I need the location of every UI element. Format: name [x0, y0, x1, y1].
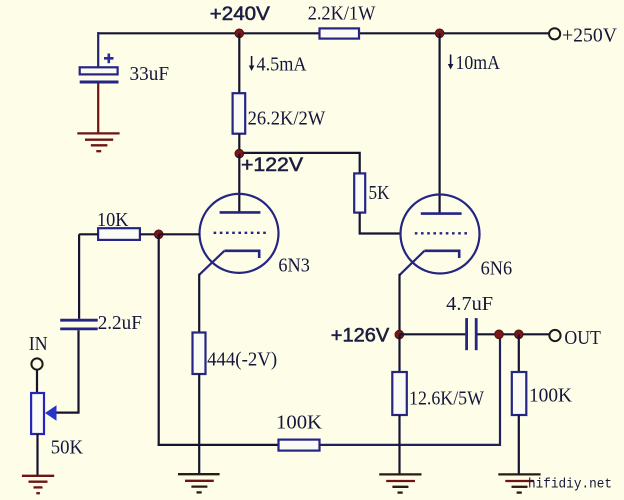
- wire: C2 to pot wiper: [56, 330, 79, 412]
- node +122V junction: [235, 149, 244, 158]
- node +126V junction: [395, 330, 404, 339]
- wire: feedback bottom run: [158, 444, 279, 446]
- current label 4.5mA with down arrow: [249, 53, 307, 75]
- svg-text:33uF: 33uF: [130, 63, 170, 85]
- svg-text:10K: 10K: [97, 209, 129, 231]
- wire: output node to R8: [518, 334, 520, 372]
- wire: pot to ground: [36, 434, 38, 475]
- wire: V1 plate supply drop: [238, 33, 240, 93]
- resistor R5 444(-2V): [193, 333, 206, 375]
- capacitor C1 33uF: [80, 32, 119, 133]
- potentiometer RP 50K: [31, 393, 56, 434]
- svg-text:100K: 100K: [529, 385, 573, 407]
- resistor R8 100K output: [512, 372, 527, 415]
- wire: R7 top lead: [398, 335, 400, 372]
- wire: +122V node to V1 plate: [238, 154, 240, 213]
- svg-text:OUT: OUT: [564, 327, 601, 349]
- wire: feedback to output node: [320, 334, 501, 445]
- resistor R1 26.2K/2W: [233, 93, 246, 134]
- triode V2 6N6: [400, 195, 480, 275]
- resistor R6 100K feedback: [279, 440, 320, 451]
- wire: 10K left lead: [79, 233, 98, 235]
- wire: R8 to ground: [518, 415, 520, 474]
- wire: V1 cathode to R5: [198, 274, 200, 333]
- terminal OUT: [549, 330, 560, 341]
- svg-text:2.2K/1W: 2.2K/1W: [308, 3, 376, 25]
- svg-text:5K: 5K: [369, 182, 390, 204]
- node +240V junction: [235, 29, 244, 38]
- wire: B+ rail left segment: [98, 32, 320, 34]
- svg-text:50K: 50K: [51, 437, 84, 459]
- wire: V2 cathode drop: [398, 274, 400, 335]
- wire: 10K right lead: [140, 233, 159, 235]
- svg-text:4.7uF: 4.7uF: [446, 293, 493, 315]
- node output junction B: [515, 330, 524, 339]
- wire: R3 to V2 grid: [360, 213, 401, 234]
- ground under R7: [379, 474, 421, 492]
- svg-text:2.2uF: 2.2uF: [98, 312, 142, 334]
- wire: feedback drop from grid junction: [158, 234, 160, 446]
- wire: 10K to C2: [78, 234, 80, 318]
- ground under C1: [77, 133, 119, 151]
- wire: +126V to C3: [399, 333, 465, 335]
- svg-text:444(-2V): 444(-2V): [207, 349, 277, 371]
- current label 10mA with down arrow: [448, 52, 501, 74]
- svg-text:26.2K/2W: 26.2K/2W: [248, 107, 326, 129]
- resistor R7 12.6K/5W: [392, 372, 407, 415]
- svg-text:100K: 100K: [276, 412, 323, 434]
- svg-text:+126V: +126V: [331, 326, 390, 347]
- svg-text:+240V: +240V: [210, 4, 270, 25]
- ground under pot: [22, 476, 54, 493]
- svg-text:IN: IN: [29, 333, 48, 355]
- node B+ right junction: [435, 29, 444, 38]
- wire: +122V node to R3: [243, 153, 360, 174]
- svg-text:4.5mA: 4.5mA: [257, 53, 308, 75]
- terminal IN: [31, 358, 42, 369]
- svg-text:+250V: +250V: [562, 24, 618, 46]
- resistor R3 5K: [354, 173, 365, 212]
- svg-text:+122V: +122V: [241, 155, 303, 176]
- ground under R8: [498, 474, 540, 492]
- wire: V2 plate supply drop: [439, 33, 441, 213]
- terminal +250V: [549, 28, 560, 39]
- wire: grid junction to V1 grid: [159, 233, 200, 235]
- wire: R7 to ground: [398, 415, 400, 474]
- wire: IN terminal to pot: [36, 370, 38, 393]
- svg-text:12.6K/5W: 12.6K/5W: [409, 388, 484, 410]
- node output junction A: [495, 330, 504, 339]
- svg-text:6N6: 6N6: [481, 258, 512, 280]
- wire: R5 to ground: [198, 374, 200, 474]
- wire: B+ rail mid segment: [358, 32, 440, 34]
- triode V1 6N3: [199, 194, 278, 275]
- resistor R4 10K: [98, 228, 140, 240]
- svg-text:10mA: 10mA: [456, 52, 501, 74]
- svg-text:hifidiy.net: hifidiy.net: [528, 478, 612, 493]
- wire: C3 to OUT terminal: [478, 333, 550, 335]
- ground under R5: [178, 474, 220, 492]
- wire: rail to +250V terminal: [440, 32, 549, 34]
- capacitor C3 4.7uF: [467, 318, 477, 350]
- capacitor C2 2.2uF: [60, 320, 97, 329]
- svg-text:6N3: 6N3: [278, 255, 310, 277]
- resistor R2 2.2K/1W: [320, 28, 360, 38]
- wire: R1 to +122V node: [238, 134, 240, 154]
- node V1 grid junction: [154, 230, 163, 239]
